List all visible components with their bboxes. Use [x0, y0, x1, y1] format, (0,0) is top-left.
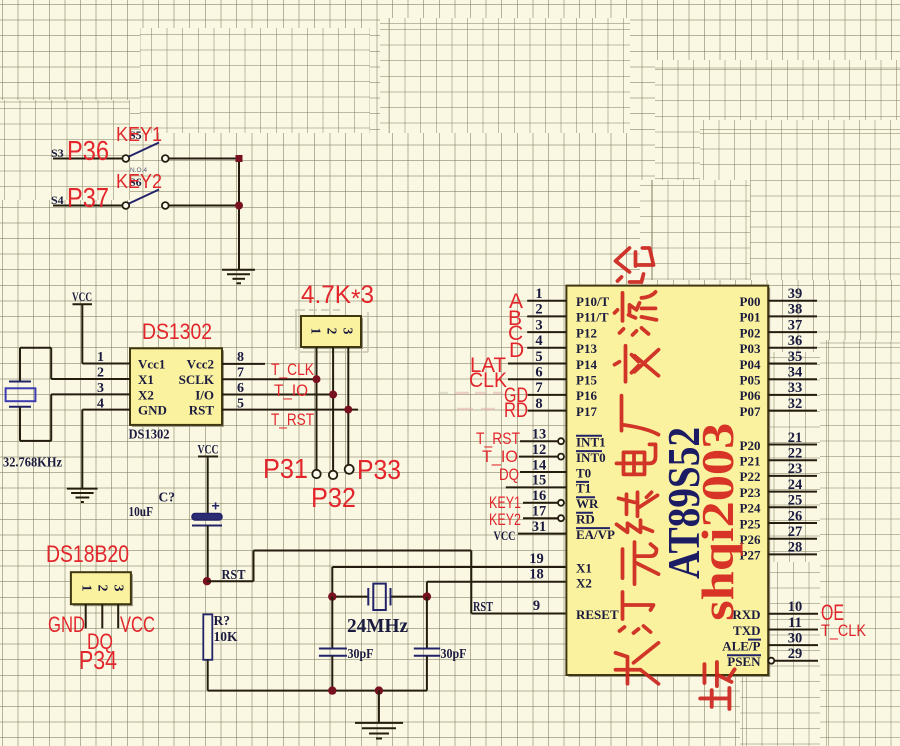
pin 5 P14 wire [508, 349, 597, 372]
svg-text:T_CLK: T_CLK [821, 621, 867, 640]
svg-text:28: 28 [788, 540, 803, 556]
svg-text:+: + [212, 498, 220, 514]
pin 9 RESET wire [533, 598, 619, 622]
svg-text:SCLK: SCLK [179, 372, 215, 387]
char 流 [615, 292, 657, 335]
svg-text:1: 1 [309, 328, 324, 335]
IC U DS1302 [130, 348, 224, 427]
svg-text:shqi2003: shqi2003 [693, 423, 743, 621]
svg-text:7: 7 [535, 380, 542, 396]
pin 26 P25 wire [740, 508, 817, 531]
pin 28 P27 wire [740, 540, 817, 563]
svg-text:RST: RST [189, 403, 215, 418]
svg-text:30: 30 [788, 630, 803, 646]
svg-text:T0: T0 [576, 465, 591, 480]
svg-text:VCC: VCC [198, 442, 219, 457]
crystal Y 24MHz [332, 584, 427, 637]
wire resnet leg 2 [332, 347, 334, 471]
svg-text:19: 19 [529, 551, 544, 567]
svg-text:13: 13 [532, 427, 547, 443]
pin 7 P16 wire [528, 380, 598, 403]
svg-text:T_IO: T_IO [274, 381, 308, 400]
pin 35 P04 wire [740, 349, 817, 372]
svg-text:PSEN: PSEN [727, 654, 761, 669]
pin 1 Vcc1 wire [82, 350, 130, 365]
svg-text:10uF: 10uF [129, 504, 154, 519]
wire X1 net [332, 567, 566, 597]
svg-text:P13: P13 [576, 341, 597, 356]
junction crystal right [423, 592, 431, 600]
pin 33 P06 wire [740, 380, 817, 403]
svg-text:ALE/P: ALE/P [722, 638, 760, 653]
svg-text:Vcc1: Vcc1 [138, 357, 165, 372]
svg-text:3: 3 [111, 585, 126, 592]
svg-text:8: 8 [237, 350, 244, 365]
ground keys [222, 270, 255, 284]
svg-text:P07: P07 [740, 404, 761, 419]
char 论 [616, 248, 654, 282]
svg-text:P36: P36 [67, 135, 109, 166]
svg-text:4: 4 [535, 333, 542, 349]
svg-text:P11/T: P11/T [576, 310, 609, 325]
pin 15 T1 wire [506, 473, 591, 496]
capacitor C? 10uF electrolytic [129, 490, 223, 582]
svg-text:T1: T1 [576, 481, 591, 496]
svg-text:P16: P16 [576, 388, 597, 403]
switch S3 KEY1 [51, 128, 239, 162]
pin 4 P13 wire [527, 333, 597, 356]
capacitor C 30pF right [414, 646, 467, 691]
wire DS18B20 pin1 [85, 604, 87, 628]
svg-text:9: 9 [533, 598, 540, 614]
junction bottom rail ground [375, 686, 383, 694]
pin 24 P23 wire [740, 477, 817, 500]
svg-text:P10/T: P10/T [576, 294, 610, 309]
pin 36 P03 wire [740, 333, 817, 356]
svg-text:X1: X1 [576, 560, 592, 575]
svg-text:24: 24 [788, 477, 803, 493]
pin 4 GND wire [82, 396, 130, 488]
svg-text:P33: P33 [357, 454, 401, 485]
svg-text:CLK: CLK [469, 369, 507, 392]
svg-text:39: 39 [788, 286, 803, 302]
pin 16 WR wire [523, 488, 599, 511]
svg-text:1: 1 [535, 286, 542, 302]
svg-text:25: 25 [788, 493, 803, 509]
pin 7 SCLK wire [222, 366, 317, 381]
svg-text:P06: P06 [740, 388, 761, 403]
pin 6 I/O wire [222, 381, 333, 396]
wire crystal right leg [426, 597, 428, 648]
pin 22 P21 wire [740, 446, 817, 469]
junction keys bottom [235, 202, 243, 210]
wire X2 net [427, 582, 567, 597]
svg-text:10K: 10K [214, 629, 238, 644]
svg-text:29: 29 [788, 646, 803, 662]
svg-text:T_RST: T_RST [271, 410, 314, 429]
svg-text:27: 27 [788, 524, 803, 540]
wire RST node to corner [207, 551, 471, 582]
svg-text:P37: P37 [67, 182, 109, 213]
svg-text:22: 22 [788, 446, 803, 462]
svg-text:C?: C? [159, 490, 176, 505]
svg-text:P04: P04 [740, 357, 761, 372]
junction keys top [236, 155, 243, 162]
pin 30 ALE/P wire [722, 630, 818, 653]
svg-text:3: 3 [341, 328, 356, 335]
wire RESET run [471, 551, 566, 614]
svg-text:P34: P34 [79, 645, 117, 675]
svg-text:KEY2: KEY2 [489, 510, 521, 529]
wire resnet leg 1 [316, 347, 318, 470]
watermark char 坛 [700, 662, 734, 709]
svg-text:14: 14 [532, 457, 547, 473]
svg-text:INT1: INT1 [576, 435, 606, 450]
svg-text:33: 33 [788, 380, 803, 396]
svg-text:Vcc2: Vcc2 [187, 357, 214, 372]
pin 3 P12 wire [527, 317, 597, 340]
char 线 [617, 492, 658, 532]
svg-text:TXD: TXD [733, 623, 760, 638]
svg-text:3: 3 [535, 317, 542, 333]
pin 39 P00 wire [740, 286, 817, 309]
pin 23 P22 wire [740, 461, 817, 484]
svg-text:T_IO: T_IO [482, 447, 518, 466]
svg-text:DS1302: DS1302 [129, 427, 170, 442]
svg-text:2: 2 [325, 328, 340, 335]
junction T_IO [329, 391, 337, 399]
svg-text:P17: P17 [576, 404, 597, 419]
svg-text:16: 16 [532, 488, 547, 504]
svg-text:EA/VP: EA/VP [576, 527, 615, 542]
pin 13 INT1 wire [520, 427, 606, 450]
svg-text:36: 36 [788, 333, 803, 349]
svg-text:P05: P05 [740, 373, 761, 388]
svg-text:35: 35 [788, 349, 803, 365]
pin 2 X1 wire [51, 366, 130, 381]
svg-text:21: 21 [788, 430, 803, 446]
ghost marks around resistor network [296, 309, 368, 352]
char 电 [617, 444, 656, 474]
char 交 [615, 346, 659, 382]
pin 3 X2 wire [51, 381, 130, 396]
pin 12 INT0 wire [519, 442, 606, 465]
power VCC (reset cap) [198, 442, 219, 515]
pin 19 X1 wire [529, 551, 592, 575]
svg-text:26: 26 [788, 508, 803, 524]
svg-text:X1: X1 [138, 372, 154, 387]
svg-text:30pF: 30pF [441, 646, 467, 661]
junction T_CLK [313, 375, 321, 383]
svg-text:5: 5 [535, 349, 542, 365]
capacitor C 30pF left [319, 646, 374, 691]
IC U1 AT89S52 [566, 286, 770, 677]
svg-text:T_CLK: T_CLK [271, 360, 315, 379]
svg-text:GND: GND [138, 403, 167, 418]
svg-text:34: 34 [788, 365, 803, 381]
svg-text:VCC: VCC [494, 528, 516, 543]
pin 10 RXD wire [732, 599, 818, 622]
pin 1 P10/T wire [527, 286, 609, 309]
resistor network RP 4.7K*3 [301, 316, 363, 349]
svg-text:VCC: VCC [72, 289, 92, 304]
svg-text:2: 2 [535, 302, 542, 318]
svg-text:38: 38 [788, 302, 803, 318]
svg-text:6: 6 [535, 365, 542, 381]
svg-text:11: 11 [788, 615, 802, 631]
pin 32 P07 wire [740, 396, 817, 419]
svg-text:32: 32 [788, 396, 803, 412]
wire resnet leg 3 [347, 347, 349, 465]
pin 18 X2 wire [529, 567, 592, 591]
port P32 [329, 471, 337, 479]
pin 17 RD wire [523, 504, 595, 527]
svg-text:P15: P15 [576, 373, 597, 388]
svg-text:P02: P02 [740, 325, 761, 340]
svg-text:37: 37 [788, 317, 803, 333]
svg-text:2: 2 [95, 585, 110, 592]
svg-text:P31: P31 [263, 453, 308, 484]
crystal Y 32.768KHz [3, 348, 62, 470]
pin 31 EA/VP wire [518, 519, 615, 542]
svg-text:RST: RST [473, 599, 493, 614]
char 无 [623, 542, 659, 584]
svg-text:WR: WR [576, 496, 599, 511]
svg-text:X2: X2 [138, 387, 154, 402]
svg-text:23: 23 [788, 461, 803, 477]
pin 6 P15 wire [508, 365, 597, 388]
svg-text:GND: GND [48, 612, 85, 637]
pin 5 RST wire [222, 396, 358, 411]
svg-text:24MHz: 24MHz [347, 615, 408, 637]
power VCC (DS1302) [72, 289, 92, 364]
svg-text:31: 31 [532, 519, 547, 535]
svg-text:1: 1 [79, 585, 94, 592]
svg-text:RESET: RESET [576, 607, 619, 622]
wire crystal left leg [331, 597, 333, 648]
resistor R? 10K [203, 613, 238, 660]
svg-text:30pF: 30pF [348, 646, 374, 661]
wire DS18B20 pin2 [101, 604, 103, 628]
wire keys to ground [238, 159, 240, 270]
svg-text:KEY1: KEY1 [116, 124, 162, 146]
port P31 [312, 470, 320, 478]
wire resistor to bottom rail [208, 660, 427, 691]
pin 37 P02 wire [740, 317, 817, 340]
svg-text:8: 8 [535, 396, 542, 412]
pin 34 P05 wire [740, 365, 817, 388]
junction crystal left [328, 592, 336, 600]
svg-text:P01: P01 [740, 310, 761, 325]
svg-text:INT0: INT0 [576, 450, 606, 465]
svg-text:R?: R? [214, 613, 231, 628]
scan artifact grid patches [380, 18, 630, 133]
watermark column: 长汀无线电厂交流论 (rotated) [615, 248, 659, 684]
svg-text:RD: RD [576, 512, 595, 527]
svg-text:KEY2: KEY2 [116, 171, 162, 193]
svg-text:10: 10 [788, 599, 803, 615]
port P33 [345, 465, 354, 474]
svg-text:P03: P03 [740, 341, 761, 356]
svg-text:DQ: DQ [499, 465, 519, 484]
svg-text:P12: P12 [576, 325, 597, 340]
pin 2 P11/T wire [527, 302, 609, 325]
pin 25 P24 wire [740, 493, 817, 516]
pin 14 T0 wire [520, 457, 591, 480]
svg-text:32.768KHz: 32.768KHz [3, 455, 62, 470]
svg-text:X2: X2 [576, 576, 592, 591]
switch S4 KEY2 [51, 167, 239, 209]
junction bottom rail left [328, 686, 336, 694]
svg-text:VCC: VCC [120, 612, 155, 637]
junction RST node [203, 577, 211, 585]
char 长 [616, 643, 659, 684]
pin 29 PSEN wire [727, 646, 818, 669]
pin 8 P17 wire [528, 396, 598, 419]
pin 8 Vcc2 wire [222, 350, 265, 365]
svg-text:18: 18 [529, 567, 544, 583]
pin 21 P20 wire [740, 430, 817, 453]
svg-text:17: 17 [532, 504, 547, 520]
svg-text:DS1302: DS1302 [142, 319, 212, 344]
pin 27 P26 wire [740, 524, 817, 547]
ground DS1302 [67, 489, 98, 502]
svg-text:RD: RD [504, 399, 528, 422]
svg-text:I/O: I/O [195, 387, 214, 402]
svg-text:P14: P14 [576, 357, 597, 372]
svg-text:D: D [509, 339, 524, 362]
wire DS18B20 pin3 [117, 604, 119, 628]
junction T_RST [344, 406, 352, 414]
ground oscillator [355, 691, 403, 739]
svg-text:P00: P00 [740, 294, 761, 309]
pin 11 TXD wire [733, 615, 818, 638]
char 汀 [620, 592, 654, 633]
scan ghost pink dashes [438, 393, 503, 409]
svg-text:T_RST: T_RST [476, 429, 520, 448]
svg-text:4.7K*3: 4.7K*3 [301, 281, 374, 313]
svg-text:RST: RST [222, 567, 246, 582]
pin 38 P01 wire [740, 302, 817, 325]
IC U DS18B20 [71, 572, 133, 606]
svg-text:DS18B20: DS18B20 [46, 541, 129, 568]
svg-text:15: 15 [532, 473, 547, 489]
char 厂 [622, 396, 659, 435]
svg-text:P32: P32 [311, 482, 356, 513]
